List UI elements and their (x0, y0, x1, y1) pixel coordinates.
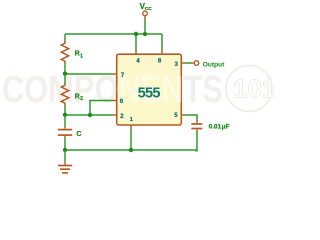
wire pin 7 (65, 73, 117, 75)
Vcc label (140, 2, 153, 12)
svg-text:555: 555 (138, 86, 161, 102)
svg-text:R: R (75, 51, 80, 58)
node junction Vcc (143, 32, 147, 36)
svg-text:C: C (76, 131, 81, 138)
node junction pin1 (129, 148, 133, 152)
U1 label 555 (138, 86, 161, 102)
svg-text:CC: CC (145, 6, 152, 12)
capacitor C (58, 115, 72, 150)
wire top rail (65, 33, 162, 35)
wire bottom rail (65, 149, 197, 151)
pin 2 label (120, 114, 124, 120)
pin 8 label (158, 58, 162, 64)
svg-text:1: 1 (80, 53, 83, 59)
svg-text:0.01: 0.01 (209, 124, 222, 131)
wire Vcc drop (144, 16, 146, 34)
node junction pin4 (134, 32, 138, 36)
svg-text:R: R (75, 94, 80, 101)
pin 6 label (120, 99, 124, 105)
wire pin 6 (90, 101, 117, 116)
Vcc terminal (143, 11, 148, 16)
svg-text:Output: Output (203, 61, 226, 68)
wire pin 1 (130, 125, 132, 150)
svg-text:2: 2 (80, 96, 83, 102)
node junction ground (63, 148, 67, 152)
capacitor C2 0.01uF (191, 121, 202, 151)
wire pin 5 (181, 115, 197, 121)
watermark (2, 66, 276, 112)
svg-text:μF: μF (222, 124, 230, 131)
ground (58, 150, 72, 173)
node junction pin7 (63, 72, 67, 76)
svg-text:1: 1 (130, 117, 133, 123)
pin 3 label (175, 62, 179, 68)
wire pin 4 stub (135, 34, 137, 54)
R1 label (75, 51, 84, 60)
svg-text:101: 101 (233, 74, 275, 104)
node junction pin2 (63, 113, 67, 117)
pin 1 label (130, 117, 133, 123)
pin 4 label (136, 58, 140, 64)
C2 value label 0.01uF (209, 124, 230, 131)
resistor R1 (61, 34, 68, 74)
wire pin 3 (181, 62, 194, 64)
Output label (203, 61, 226, 68)
Output terminal (194, 61, 199, 66)
pin 5 label (174, 113, 178, 119)
wire pin 8 stub (161, 34, 163, 54)
wire pin 2 (65, 114, 117, 116)
node junction pin6 (88, 113, 92, 117)
C label (76, 131, 81, 138)
resistor R2 (61, 74, 68, 115)
R2 label (75, 94, 84, 103)
555 timer U1 (2, 54, 223, 125)
pin 7 label (121, 73, 125, 79)
